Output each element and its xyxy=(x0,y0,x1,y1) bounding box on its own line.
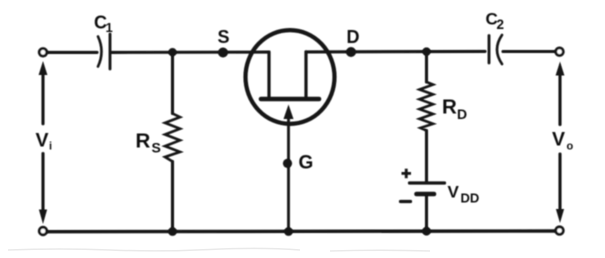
svg-text:D: D xyxy=(347,27,360,47)
svg-text:V: V xyxy=(36,130,49,152)
svg-text:DD: DD xyxy=(461,191,480,206)
svg-text:S: S xyxy=(152,140,161,156)
svg-text:R: R xyxy=(136,130,151,153)
svg-text:R: R xyxy=(442,96,457,119)
svg-text:S: S xyxy=(218,27,230,47)
svg-text:V: V xyxy=(448,183,460,202)
svg-text:D: D xyxy=(457,106,467,122)
svg-text:i: i xyxy=(49,141,52,153)
svg-text:G: G xyxy=(299,153,314,174)
svg-text:2: 2 xyxy=(497,17,505,32)
svg-text:o: o xyxy=(567,141,574,153)
svg-text:1: 1 xyxy=(106,20,113,35)
svg-text:V: V xyxy=(552,129,565,151)
